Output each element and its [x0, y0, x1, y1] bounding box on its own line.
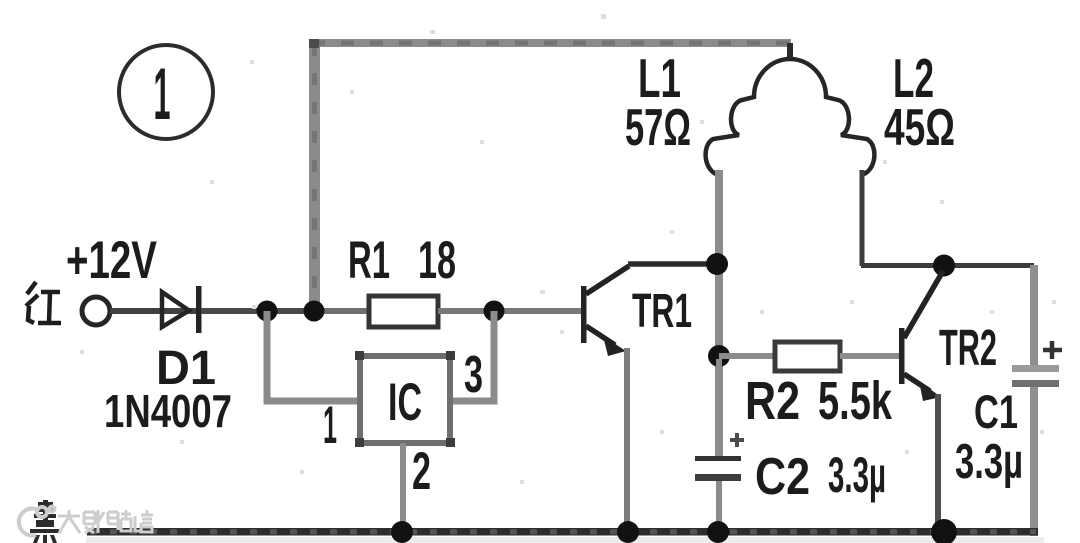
wire R2 right — [840, 353, 899, 359]
capacitor C1 — [1012, 265, 1062, 536]
diode D1 — [162, 286, 202, 333]
svg-text:3: 3 — [464, 346, 483, 404]
rail shadow strip — [86, 537, 1044, 543]
node junction left — [257, 301, 278, 322]
node junction feed — [304, 301, 325, 322]
top rail wire — [309, 39, 791, 47]
inductor L1 L2 coil arch — [706, 59, 875, 175]
node junction TR2 emitter rail — [931, 519, 957, 543]
wire IC pin3 loop — [453, 311, 494, 401]
svg-text:R2: R2 — [745, 371, 800, 431]
svg-text:3.3µ: 3.3µ — [828, 447, 886, 503]
watermark logo — [19, 507, 55, 536]
wire L1 bottom lead — [715, 170, 723, 460]
wire terminal to diode — [110, 308, 202, 314]
wire IC pin1 loop — [267, 311, 357, 401]
svg-text:5.5k: 5.5k — [818, 371, 893, 431]
svg-text:1N4007: 1N4007 — [104, 385, 232, 437]
wire R1 to TR1 base — [438, 308, 583, 314]
capacitor C2 — [695, 359, 744, 532]
wire coil stub — [787, 43, 793, 59]
node junction TR1 emitter rail — [617, 521, 639, 543]
svg-text:18: 18 — [418, 231, 456, 290]
node junction collector L1 — [706, 253, 728, 275]
resistor R2 — [775, 342, 840, 371]
node junction C2 rail — [707, 521, 729, 543]
transistor TR1 — [581, 266, 629, 356]
transistor TR2 — [899, 271, 943, 401]
svg-text:1: 1 — [154, 54, 171, 135]
svg-text:1: 1 — [323, 396, 337, 455]
wire top right horizontal — [861, 263, 1034, 268]
svg-text:57Ω: 57Ω — [625, 99, 691, 157]
svg-text:C1: C1 — [974, 385, 1018, 438]
wire R2 left — [719, 353, 775, 359]
IC U1 — [360, 356, 450, 443]
node junction R2 left — [708, 345, 730, 367]
node junction TR2 collector — [933, 255, 955, 277]
svg-text:IC: IC — [388, 373, 422, 432]
svg-text:+12V: +12V — [66, 231, 157, 290]
terminal red — [82, 297, 110, 325]
wire diode to R1 — [201, 308, 314, 314]
label black terminal 黑 — [30, 500, 59, 543]
wire vertical feed from top rail — [309, 40, 320, 312]
ground rail bottom — [87, 528, 1038, 536]
noise speckles — [80, 14, 1056, 484]
svg-text:TR2: TR2 — [939, 319, 997, 376]
wire TR1 collector — [628, 261, 715, 267]
svg-text:TR1: TR1 — [632, 285, 692, 338]
svg-text:R1: R1 — [348, 231, 390, 290]
wire L2 bottom lead — [860, 170, 865, 266]
node junction R1 right — [484, 301, 505, 322]
svg-text:C2: C2 — [755, 448, 810, 506]
resistor R1 — [369, 296, 438, 327]
figure number circle 1 — [119, 45, 213, 139]
svg-text:45Ω: 45Ω — [884, 99, 955, 157]
watermark text da shu kua jing — [58, 510, 153, 533]
corner dot top rail — [309, 39, 319, 48]
svg-text:3.3µ: 3.3µ — [955, 435, 1023, 489]
label red terminal 红 — [26, 282, 61, 323]
wire IC pin2 down — [400, 443, 406, 532]
wire TR2 emitter down — [935, 394, 941, 532]
node junction pin2 rail — [391, 521, 413, 543]
svg-text:2: 2 — [412, 442, 431, 501]
wire TR1 emitter down — [624, 348, 630, 532]
